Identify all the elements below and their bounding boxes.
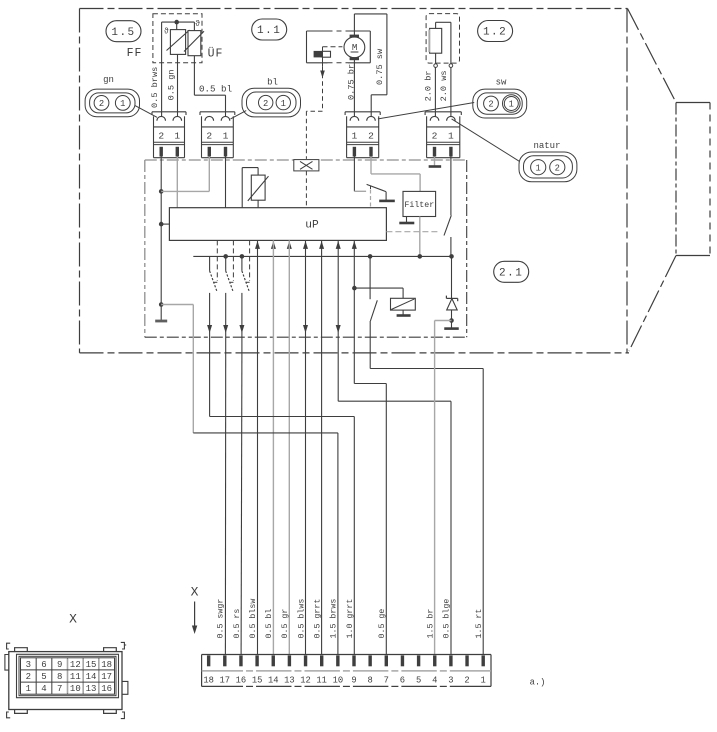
svg-text:6: 6 <box>400 676 405 686</box>
harness wire to pin4 (1.5 br) gray <box>434 353 436 655</box>
svg-text:3: 3 <box>448 676 453 686</box>
glow plug bottom wire <box>435 53 437 64</box>
svg-text:1: 1 <box>281 99 286 109</box>
svg-text:12: 12 <box>70 660 81 670</box>
svg-text:0.75 br: 0.75 br <box>346 64 356 100</box>
svg-text:8: 8 <box>368 676 373 686</box>
svg-text:5: 5 <box>416 676 421 686</box>
svg-text:0.5 blge: 0.5 blge <box>442 599 452 639</box>
harness wire switch1 to pin9 <box>209 353 211 417</box>
svg-text:0.5 bl: 0.5 bl <box>199 84 232 95</box>
dashed line to X reference <box>322 66 324 111</box>
strip connector X 18-pin <box>202 654 491 656</box>
svg-text:13: 13 <box>284 676 295 686</box>
harness wire switch3 to pin16 <box>240 353 243 655</box>
svg-text:11: 11 <box>70 672 81 682</box>
svg-text:2.0 br: 2.0 br <box>424 70 434 101</box>
wire 2.0 br <box>434 67 436 116</box>
filter box <box>403 191 436 216</box>
heater unit outer boundary bottom edge <box>80 352 630 354</box>
svg-text:1.2: 1.2 <box>483 27 507 39</box>
svg-text:18: 18 <box>203 676 214 686</box>
svg-text:1: 1 <box>26 684 31 694</box>
uP microprocessor box <box>169 208 386 241</box>
zener feed <box>449 254 454 259</box>
contact blade glow <box>444 215 451 235</box>
bus contact blade <box>370 300 377 321</box>
motor bottom wire 0.75 br <box>353 58 355 117</box>
svg-text:1.1: 1.1 <box>257 25 281 37</box>
zener lower node <box>449 318 454 323</box>
svg-text:1: 1 <box>481 676 486 686</box>
svg-text:1.5 brws: 1.5 brws <box>329 599 339 639</box>
thermistor UF <box>193 22 195 31</box>
heater unit outer boundary left edge <box>79 9 81 353</box>
harness wire ground to pin10 <box>192 353 194 433</box>
svg-text:1.0 grrt: 1.0 grrt <box>346 599 355 639</box>
switch S1 <box>209 256 211 271</box>
glow plug dashed box <box>426 14 459 64</box>
wire pin2 FF to ground <box>160 157 162 321</box>
branch to uP left edge <box>161 223 169 225</box>
svg-text:14: 14 <box>268 676 279 686</box>
svg-text:ϑ: ϑ <box>164 27 169 37</box>
control unit box right edge <box>466 160 468 337</box>
bottom tabs <box>15 710 28 714</box>
branch ground to harness <box>161 304 193 306</box>
harness wire uP to pin3 (0.5 blge) <box>337 240 339 401</box>
svg-text:8: 8 <box>57 672 62 682</box>
svg-text:uP: uP <box>305 220 319 232</box>
svg-text:2: 2 <box>263 99 268 109</box>
svg-text:X: X <box>69 612 77 627</box>
motor top loop wire 0.75 sw <box>353 14 355 37</box>
ground bar motor contact <box>379 200 395 203</box>
svg-text:2: 2 <box>206 130 212 141</box>
svg-text:2: 2 <box>99 99 104 109</box>
terminal circles <box>434 64 438 68</box>
varistor R <box>251 175 265 200</box>
relay coil ground <box>402 310 404 315</box>
connector block glow plug (pins 2 1) <box>425 111 461 113</box>
harness wire switch2 to pin17 <box>224 353 226 655</box>
svg-text:2: 2 <box>368 130 374 141</box>
svg-text:a.): a.) <box>530 677 546 687</box>
uP input wires with up arrows <box>255 241 260 249</box>
connector face body <box>9 652 122 710</box>
down arrows at control unit bottom <box>207 325 212 333</box>
wire motor pin1 <box>353 157 355 192</box>
wire pin1 bl conn to uP <box>225 157 227 208</box>
svg-text:16: 16 <box>236 676 247 686</box>
svg-text:X: X <box>191 585 199 600</box>
svg-text:10: 10 <box>70 684 81 694</box>
branch to pin4 wire <box>435 320 452 322</box>
svg-text:0.5 brws: 0.5 brws <box>150 67 160 108</box>
corner ears <box>7 643 11 649</box>
sensor dashed box <box>153 14 202 63</box>
svg-text:1: 1 <box>223 130 229 141</box>
svg-text:13: 13 <box>86 684 97 694</box>
ground bar glow <box>429 165 442 168</box>
bus junction dots <box>223 254 228 259</box>
svg-text:17: 17 <box>220 676 231 686</box>
svg-text:18: 18 <box>101 660 112 670</box>
dashed line X box to uP <box>305 171 307 208</box>
svg-text:6: 6 <box>41 660 46 670</box>
svg-text:2.1: 2.1 <box>499 268 523 280</box>
relay feed dot <box>352 286 357 291</box>
svg-text:9: 9 <box>351 676 356 686</box>
ground bar left <box>155 320 167 323</box>
bevel top diagonal <box>628 9 677 103</box>
svg-text:2: 2 <box>488 100 493 110</box>
svg-text:1.5: 1.5 <box>111 27 135 39</box>
harness wire pin15..pin11 direct from uP <box>257 240 259 654</box>
svg-text:2: 2 <box>432 130 438 141</box>
glow plug element <box>430 28 442 53</box>
svg-text:9: 9 <box>57 660 62 670</box>
varistor bracket <box>257 168 259 176</box>
junction dot sensor <box>174 20 179 25</box>
svg-text:1.5 br: 1.5 br <box>426 609 436 639</box>
svg-text:11: 11 <box>316 676 327 686</box>
svg-text:3: 3 <box>26 660 31 670</box>
svg-text:0.5 swgr: 0.5 swgr <box>217 599 226 639</box>
svg-text:0.5 ge: 0.5 ge <box>378 609 387 639</box>
dashed actuator uP to glow contact <box>386 231 440 233</box>
label 1.1 <box>252 19 287 40</box>
connector bl <box>242 88 301 117</box>
leader gn <box>135 105 157 117</box>
svg-text:15: 15 <box>86 660 97 670</box>
svg-text:2: 2 <box>555 163 560 173</box>
svg-text:1: 1 <box>536 163 541 173</box>
svg-text:Filter: Filter <box>404 200 434 210</box>
harness wire contact to pin1 (1.5 rt) <box>369 353 371 369</box>
lower terminal glow contact <box>450 237 452 256</box>
svg-text:2: 2 <box>26 672 31 682</box>
glow plug top wire <box>435 22 437 28</box>
svg-text:0.5 gr: 0.5 gr <box>281 609 290 639</box>
svg-text:0.5 bl: 0.5 bl <box>264 609 274 639</box>
svg-text:sw: sw <box>496 78 507 88</box>
wire 0.5 bl (UF bottom lead) <box>193 56 195 95</box>
svg-text:0.75 sw: 0.75 sw <box>375 48 385 85</box>
motor box <box>306 31 308 63</box>
svg-text:4: 4 <box>432 676 437 686</box>
svg-text:2: 2 <box>464 676 469 686</box>
svg-text:10: 10 <box>333 676 344 686</box>
svg-text:1: 1 <box>120 99 125 109</box>
connector face inner frame <box>17 654 119 697</box>
label 1.2 <box>478 21 513 42</box>
wire pin2 bl conn joins ground wire <box>208 157 210 192</box>
switch actuator dashed <box>249 240 251 281</box>
side connector dome left edge <box>675 103 677 256</box>
filter ground <box>406 217 408 223</box>
svg-text:0.5 gn: 0.5 gn <box>167 69 177 100</box>
ground bar zener <box>444 327 459 330</box>
wire motor pin2 to filter <box>370 157 372 174</box>
svg-text:17: 17 <box>101 672 112 682</box>
motor plug symbol <box>314 51 323 58</box>
strip pins <box>482 655 485 666</box>
wire label 0.5 brws <box>150 64 159 109</box>
svg-text:12: 12 <box>300 676 311 686</box>
internal bus wire <box>193 255 451 257</box>
svg-text:ÜF: ÜF <box>208 48 224 61</box>
wire glow pin2 to ground <box>434 157 436 166</box>
wire glow pin1 <box>450 157 452 216</box>
svg-text:1.5 rt: 1.5 rt <box>475 609 484 639</box>
side connector dome right edge <box>709 103 711 256</box>
svg-text:FF: FF <box>127 47 143 60</box>
svg-text:7: 7 <box>384 676 389 686</box>
wire 2.0 ws <box>450 67 452 116</box>
connector block FF (pins 2 1) <box>152 111 186 113</box>
connector block motor (pins 1 2) <box>345 111 380 113</box>
svg-text:0.5 blsw: 0.5 blsw <box>248 599 258 639</box>
svg-text:4: 4 <box>41 684 46 694</box>
thermistor FF <box>176 22 178 30</box>
svg-text:2.0 ws: 2.0 ws <box>439 70 449 101</box>
control unit box top edge <box>145 159 467 161</box>
bus contact upper terminal <box>368 254 373 259</box>
top tabs <box>15 648 28 652</box>
svg-text:0.5 grrt: 0.5 grrt <box>314 599 323 639</box>
svg-text:bl: bl <box>267 78 278 88</box>
side connector dome bottom edge <box>676 255 710 257</box>
contact terminal to ground <box>385 192 387 201</box>
pin grid <box>21 658 115 694</box>
svg-text:ϑ: ϑ <box>195 19 200 29</box>
heater unit outer boundary top edge <box>80 8 628 10</box>
connector natur <box>519 152 577 182</box>
connector gn <box>85 89 139 117</box>
label 2.1 <box>494 261 529 282</box>
switch actuator dashed <box>216 240 218 281</box>
svg-text:16: 16 <box>101 684 112 694</box>
relay coil <box>391 298 416 310</box>
svg-text:1: 1 <box>448 130 454 141</box>
svg-text:1: 1 <box>509 100 514 110</box>
switch S3 <box>241 256 243 271</box>
left notch <box>5 655 9 671</box>
control unit box left edge <box>144 160 146 337</box>
sensor top wire <box>162 21 195 23</box>
contact blade motor <box>367 184 386 191</box>
motor M <box>344 37 365 58</box>
dashed actuator from uP <box>370 190 372 208</box>
svg-text:0.5 rs: 0.5 rs <box>233 609 242 639</box>
leader sw <box>378 103 474 119</box>
leader bl <box>231 111 247 119</box>
label 1.5 <box>106 21 141 42</box>
svg-text:1: 1 <box>352 130 358 141</box>
motor plug dashed link <box>323 46 343 48</box>
switch S2 <box>225 256 227 271</box>
svg-text:14: 14 <box>86 672 97 682</box>
zener diode V1 <box>446 297 457 299</box>
leader natur <box>452 119 520 161</box>
side connector dome top edge <box>676 102 710 104</box>
connector sw <box>473 89 527 118</box>
X reference box <box>294 160 319 171</box>
switch actuator dashed <box>232 240 234 281</box>
svg-text:1: 1 <box>174 130 180 141</box>
svg-text:natur: natur <box>533 141 560 151</box>
wire pin1 FF to uP <box>176 157 178 208</box>
heater unit right edge <box>626 9 628 353</box>
svg-text:2: 2 <box>158 130 164 141</box>
svg-text:5: 5 <box>41 672 46 682</box>
svg-text:gn: gn <box>103 75 114 85</box>
harness wire uP to pin7 (0.5 ge) <box>353 240 355 383</box>
svg-text:7: 7 <box>57 684 62 694</box>
connector block bl (pins 2 1) <box>200 111 235 113</box>
wire 0.5 gn (FF bottom lead) <box>177 54 179 116</box>
control unit box bottom edge <box>145 336 467 338</box>
bevel bottom diagonal <box>629 256 676 352</box>
svg-text:15: 15 <box>252 676 263 686</box>
svg-text:M: M <box>352 42 358 53</box>
bus contact lower terminal <box>369 321 371 353</box>
svg-text:0.5 blws: 0.5 blws <box>296 599 306 639</box>
right notch <box>122 681 128 694</box>
filter to bus wire <box>419 217 421 257</box>
